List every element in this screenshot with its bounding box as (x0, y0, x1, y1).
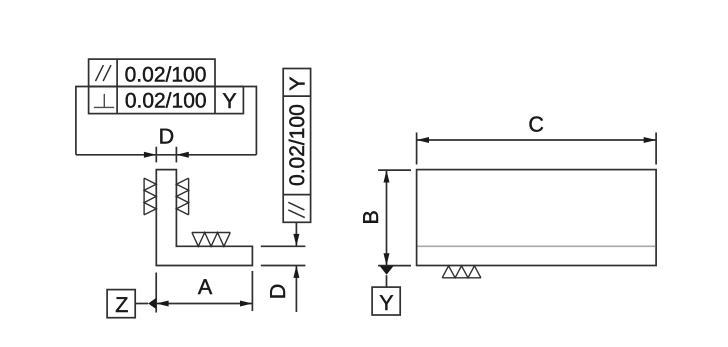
svg-text:0.02/100: 0.02/100 (286, 104, 309, 186)
svg-text:Z: Z (115, 293, 128, 317)
svg-text:Y: Y (285, 76, 309, 90)
svg-text:Y: Y (222, 89, 236, 113)
svg-text:D: D (266, 284, 290, 300)
svg-text:D: D (159, 124, 175, 148)
svg-text:0.02/100: 0.02/100 (125, 64, 207, 87)
svg-text:C: C (528, 113, 544, 137)
svg-text:B: B (359, 210, 383, 224)
svg-text:A: A (198, 275, 213, 299)
svg-text:Y: Y (379, 291, 393, 315)
svg-text:0.02/100: 0.02/100 (125, 89, 207, 112)
